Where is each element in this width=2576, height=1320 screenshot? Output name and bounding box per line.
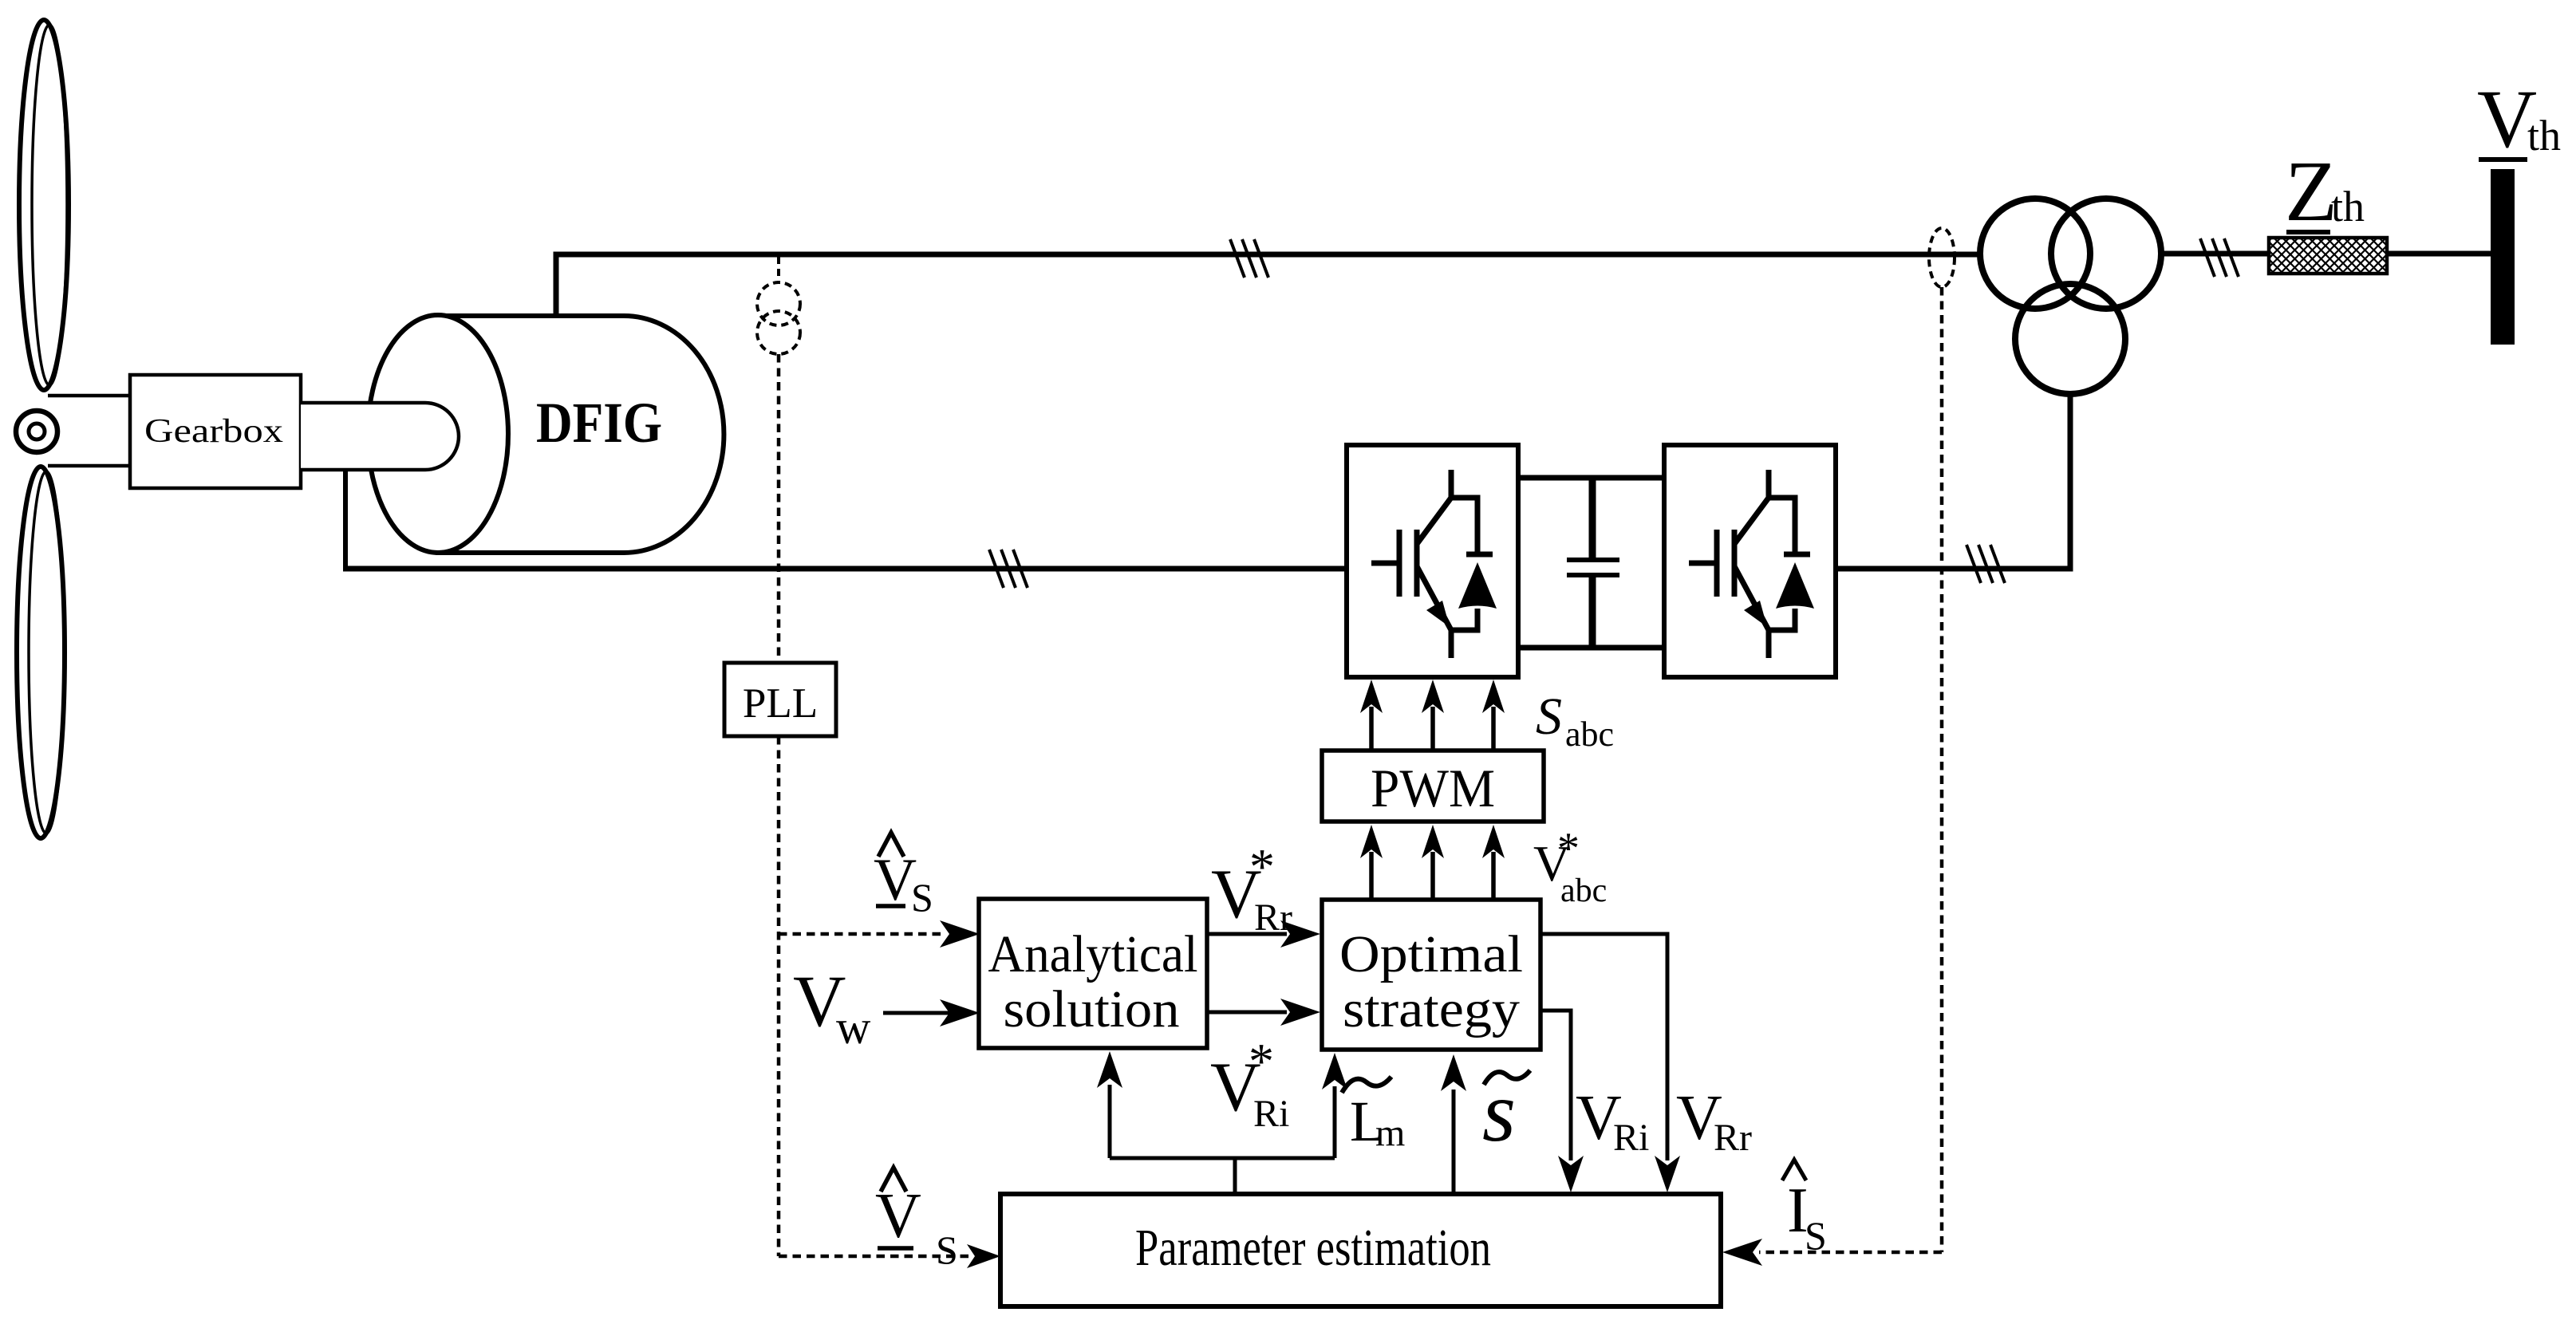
label V_Ri xyxy=(1576,1083,1649,1159)
DC link wires xyxy=(1518,478,1664,648)
label S_abc xyxy=(1536,688,1614,754)
svg-text:Parameter estimation: Parameter estimation xyxy=(1135,1219,1491,1277)
wire Zth to grid bus xyxy=(2387,251,2491,257)
dashed wire PLL down to parameter estimation level xyxy=(777,736,781,1256)
svg-text:S: S xyxy=(911,875,933,920)
label V_w xyxy=(793,960,871,1054)
current measurement CT (dashed ellipse) xyxy=(1929,228,1955,287)
label Zth xyxy=(2285,144,2365,239)
dashed wire CT down xyxy=(1940,287,1944,1252)
Optimal strategy block xyxy=(1322,900,1540,1050)
svg-text:Ri: Ri xyxy=(1253,1093,1289,1135)
svg-text:th: th xyxy=(2527,112,2561,160)
label V*Rr xyxy=(1211,838,1292,939)
arrowhead into Optimal bottom (Lm) xyxy=(1322,1053,1347,1089)
arrows PWM to rotor-side converter (3x) xyxy=(1360,680,1505,751)
svg-text:Rr: Rr xyxy=(1714,1117,1752,1159)
svg-text:Gearbox: Gearbox xyxy=(144,413,283,450)
arrow V*Ri Analytical to Optimal xyxy=(1207,999,1320,1026)
arrow s tilde into Optimal bottom xyxy=(1441,1054,1466,1194)
low-speed shaft xyxy=(48,396,132,466)
dashed arrow Is to Parameter estimation xyxy=(1722,1239,1942,1266)
rotor-side converter U1 xyxy=(1347,445,1518,677)
wire V_Rr feedback Optimal to Parameter estimation xyxy=(1540,934,1680,1192)
label Lm tilde xyxy=(1342,1077,1405,1154)
svg-text:strategy: strategy xyxy=(1343,980,1520,1038)
label V_Rr xyxy=(1676,1083,1752,1159)
svg-text:PLL: PLL xyxy=(743,680,818,727)
svg-text:*: * xyxy=(1557,824,1580,873)
svg-text:DFIG: DFIG xyxy=(536,391,662,455)
svg-text:solution: solution xyxy=(1004,980,1180,1038)
Parameter estimation block xyxy=(1000,1194,1721,1306)
arrowhead into Analytical bottom xyxy=(1097,1051,1122,1088)
grid-side converter U2 xyxy=(1664,445,1836,677)
DFIG generator xyxy=(368,315,724,553)
wire rotor drop xyxy=(343,468,348,571)
label V_S hat (upper) xyxy=(874,833,933,920)
capacitor C_dc xyxy=(1567,478,1619,648)
arrow V_w to Analytical solution xyxy=(883,999,980,1026)
svg-text:S: S xyxy=(1805,1213,1827,1258)
label V_th xyxy=(2477,73,2561,165)
wire rotor bus xyxy=(343,566,1347,572)
transformer T1 xyxy=(1980,199,2161,394)
three-phase marks (grid wire) xyxy=(2200,238,2239,277)
wind turbine blade (top) xyxy=(19,20,69,390)
three-phase marks (rotor bus) xyxy=(989,550,1028,588)
wire Lm from Parameter estimation (L-network) xyxy=(1110,1085,1335,1194)
wind turbine blade (bottom) xyxy=(17,467,65,838)
grid bus bar Vth xyxy=(2491,169,2515,345)
wire GSC to transformer xyxy=(1835,394,2070,569)
impedance Zth xyxy=(2269,238,2387,274)
Analytical solution block xyxy=(979,899,1207,1048)
wire V_Ri feedback Optimal to Parameter estimation xyxy=(1540,1011,1584,1192)
label I_S hat xyxy=(1782,1160,1827,1258)
svg-text:*: * xyxy=(1249,1033,1274,1089)
hub xyxy=(16,411,57,452)
svg-text:S: S xyxy=(1536,688,1562,746)
dashed arrow Vs to Analytical solution xyxy=(779,920,980,948)
svg-text:Rr: Rr xyxy=(1254,896,1292,939)
svg-text:th: th xyxy=(2331,183,2365,231)
label V*abc xyxy=(1533,824,1607,909)
svg-text:abc: abc xyxy=(1565,715,1614,754)
arrow V*Rr Analytical to Optimal xyxy=(1207,920,1320,948)
wire transformer to Zth xyxy=(2161,251,2269,257)
svg-text:S: S xyxy=(936,1227,958,1272)
svg-text:Ri: Ri xyxy=(1613,1117,1649,1159)
svg-text:*: * xyxy=(1249,838,1275,895)
label V*Ri xyxy=(1210,1033,1289,1135)
svg-text:Z: Z xyxy=(2285,144,2337,239)
high-speed shaft xyxy=(301,403,459,470)
dashed arrow Vs to Parameter estimation xyxy=(779,1244,1000,1268)
gearbox xyxy=(130,375,301,488)
svg-text:abc: abc xyxy=(1560,873,1607,909)
label V_S hat (lower) xyxy=(875,1168,958,1272)
svg-text:Analytical: Analytical xyxy=(988,925,1198,983)
svg-text:PWM: PWM xyxy=(1371,758,1495,818)
dashed wire PT to PLL xyxy=(777,354,781,663)
svg-text:w: w xyxy=(836,1001,871,1054)
wire stator riser and stator bus xyxy=(556,254,1980,316)
three-phase marks (stator bus) xyxy=(1230,239,1268,278)
PWM block xyxy=(1322,751,1544,822)
PLL block xyxy=(724,663,836,736)
three-phase marks (GSC wire) xyxy=(1967,545,2005,583)
svg-text:m: m xyxy=(1375,1112,1405,1154)
voltage measurement PT (dashed circles) xyxy=(757,257,800,354)
label s tilde xyxy=(1482,1065,1530,1160)
arrows Optimal strategy to PWM (3x) xyxy=(1360,825,1505,900)
svg-text:Optimal: Optimal xyxy=(1339,925,1523,983)
